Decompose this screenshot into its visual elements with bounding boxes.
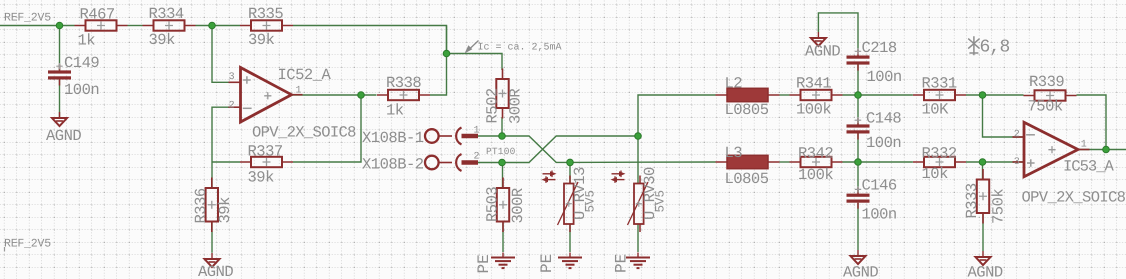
ground symbol PE at RV30	[626, 253, 650, 269]
svg-text:2: 2	[474, 152, 480, 163]
svg-text:L0805: L0805	[725, 101, 769, 119]
op-amp IC53_A	[1013, 122, 1090, 176]
varistor RV30	[628, 176, 649, 233]
junction top rail at C149	[56, 22, 63, 29]
svg-text:R332: R332	[922, 145, 957, 163]
wire RV30 junction down	[637, 136, 639, 184]
svg-text:2: 2	[229, 100, 235, 111]
svg-text:100k: 100k	[798, 166, 833, 184]
svg-text:100n: 100n	[867, 68, 902, 86]
capacitor C149	[48, 63, 71, 86]
wire RV30 to PE	[637, 224, 639, 252]
svg-text:R467: R467	[80, 6, 115, 24]
wire C149 to AGND	[59, 80, 61, 119]
resistor R467	[75, 20, 128, 30]
surge arrow annotation left of RV13	[542, 171, 557, 183]
wire R341 to C junction	[843, 94, 913, 96]
wire R502 to row1	[501, 117, 503, 136]
resistor R341	[790, 90, 843, 100]
svg-text:10k: 10k	[922, 165, 949, 183]
junction top rail at IC52 pin3	[209, 22, 216, 29]
svg-text:AGND: AGND	[46, 127, 81, 145]
inductor L3	[716, 155, 780, 168]
svg-text:IC52_A: IC52_A	[278, 66, 332, 84]
ground symbol AGND at C149	[52, 112, 67, 126]
wire junction down to R333	[982, 162, 984, 180]
op-amp IC52_A	[229, 68, 303, 123]
svg-text:100n: 100n	[866, 134, 901, 152]
svg-text:C149: C149	[64, 54, 99, 72]
capacitor C148	[847, 117, 870, 140]
svg-text:R503: R503	[484, 187, 502, 222]
svg-text:C148: C148	[866, 110, 901, 128]
svg-text:10K: 10K	[922, 101, 950, 119]
junction RV30 node	[635, 133, 642, 140]
wire C218 top to AGND	[818, 13, 858, 51]
wire R332 to junction and IC53 pin3	[966, 161, 1024, 163]
inductor L2	[716, 88, 780, 101]
svg-text:1: 1	[1081, 139, 1087, 150]
wire X108B-1 lead to row1 junction	[478, 135, 502, 137]
wire R337 right to feedback corner	[293, 95, 361, 162]
wire net REF_2V5 top rail segment 2	[128, 25, 143, 27]
svg-text:R342: R342	[798, 145, 833, 163]
net label origin tick REF_2V5 bottom	[4, 247, 6, 252]
wire junction to C148	[857, 95, 859, 124]
wire C218 to junction	[857, 64, 859, 95]
svg-text:R337: R337	[248, 143, 283, 161]
junction IC53 pin2 node	[979, 92, 986, 99]
svg-text:AGND: AGND	[198, 263, 233, 279]
resistor R332	[913, 157, 966, 167]
junction RV13 node	[567, 159, 574, 166]
svg-text:R335: R335	[248, 5, 283, 23]
svg-text:R338: R338	[386, 74, 421, 92]
resistor R502	[496, 69, 508, 119]
junction R333 node	[979, 159, 986, 166]
svg-text:300R: 300R	[507, 89, 525, 124]
svg-text:PT100: PT100	[486, 146, 516, 157]
wire C148 to row2 junction	[857, 133, 859, 162]
wire net REF_2V5 top rail segment 3	[196, 25, 241, 27]
resistor R339	[1024, 90, 1077, 100]
wire IC52 pin2 to node	[212, 107, 241, 162]
svg-text:750k: 750k	[1028, 98, 1063, 116]
ground symbol AGND at C146	[851, 250, 866, 264]
svg-text:X108B-1: X108B-1	[362, 129, 424, 147]
svg-text:750k: 750k	[990, 189, 1008, 224]
junction IC52 output feedback	[358, 92, 365, 99]
svg-text:3: 3	[229, 72, 235, 83]
resistor R335	[240, 20, 293, 30]
resistor R336	[206, 178, 218, 233]
svg-text:L3: L3	[725, 144, 743, 162]
ground symbol PE at R503	[491, 253, 515, 269]
wire net REF_2V5 top rail segment 1	[0, 25, 75, 27]
ground symbol AGND at R336	[205, 253, 220, 267]
wire IC52 output	[292, 94, 377, 96]
wire R339 to feedback corner	[1077, 95, 1107, 150]
junction Ic current probe node	[443, 50, 450, 57]
svg-text:OPV_2X_SOIC8: OPV_2X_SOIC8	[252, 124, 356, 142]
wire R342 to C146 junction	[843, 161, 913, 163]
wire right junction down to IC53 pin2	[983, 95, 1025, 137]
wire RV13 junction down	[569, 162, 571, 183]
wire row2 junction to crossover	[502, 136, 638, 163]
wire row2 junction to C146	[857, 162, 859, 194]
svg-text:1k: 1k	[78, 32, 96, 50]
wire L3 to R342	[780, 161, 790, 163]
svg-text:AGND: AGND	[968, 264, 1003, 279]
resistor R342	[790, 157, 843, 167]
svg-text:OPV_2X_SOIC8: OPV_2X_SOIC8	[1022, 189, 1126, 207]
wire R338 right to Ic node	[430, 26, 447, 96]
junction row1 at R502	[499, 133, 506, 140]
ground symbol AGND at C218 top	[811, 32, 826, 46]
varistor RV13	[558, 176, 579, 233]
junction C146 node	[855, 159, 862, 166]
connector X108B-2	[425, 154, 478, 171]
wire L2 to R341	[780, 94, 790, 96]
ground symbol AGND at R333	[976, 251, 991, 265]
svg-text:AGND: AGND	[843, 264, 878, 279]
svg-text:R331: R331	[922, 75, 957, 93]
svg-text:X108B-2: X108B-2	[362, 156, 424, 174]
junction C218-C148 node	[855, 92, 862, 99]
svg-text:39k: 39k	[149, 31, 176, 49]
wire row1 junction to crossover	[502, 136, 570, 162]
svg-text:R333: R333	[963, 183, 981, 218]
wire R333 to AGND	[982, 213, 984, 251]
svg-text:PE: PE	[613, 254, 631, 273]
wire crossover to L2 row	[638, 95, 716, 136]
resistor R334	[143, 20, 196, 30]
svg-text:39k: 39k	[248, 169, 275, 187]
svg-text:PE: PE	[475, 254, 493, 273]
svg-text:100n: 100n	[862, 206, 897, 224]
wire X108B-2 lead to row2 junction	[478, 162, 502, 164]
wire C146 to AGND	[857, 203, 859, 250]
ground symbol PE at RV13	[558, 253, 582, 269]
svg-text:L0805: L0805	[725, 170, 769, 188]
wire Ic node to R502	[447, 54, 503, 71]
svg-text:39k: 39k	[248, 31, 275, 49]
wire R503 junction down	[502, 163, 504, 189]
svg-text:5V5: 5V5	[653, 190, 667, 213]
wire R336 to AGND	[211, 222, 213, 253]
wire R331 to right junction	[966, 94, 1024, 96]
svg-text:1: 1	[296, 86, 302, 97]
svg-text:300R: 300R	[509, 188, 527, 223]
wire net REF_2V5 top rail segment 4	[293, 26, 447, 54]
wire RV13 junction to L3	[570, 161, 716, 163]
svg-text:2: 2	[1014, 130, 1020, 141]
svg-text:AGND: AGND	[805, 43, 840, 61]
svg-text:R334: R334	[149, 5, 184, 23]
junction IC53 output feedback	[1103, 146, 1110, 153]
svg-text:6,8: 6,8	[980, 38, 1010, 58]
wire rail to IC52 pin3	[212, 26, 241, 83]
wire RV13 to PE	[569, 224, 571, 252]
wire R503 to PE	[502, 222, 504, 253]
svg-text:5V5: 5V5	[583, 190, 597, 213]
resistor R503	[497, 178, 509, 233]
svg-text:R341: R341	[796, 75, 831, 93]
svg-text:39k: 39k	[216, 197, 234, 224]
svg-text:PE: PE	[538, 254, 556, 273]
resistor R337	[240, 157, 293, 167]
wire IC53 output	[1078, 149, 1126, 151]
svg-text:IC53_A: IC53_A	[1063, 158, 1115, 176]
svg-text:1: 1	[474, 126, 480, 137]
svg-text:100k: 100k	[796, 101, 831, 119]
svg-text:REF_2V5: REF_2V5	[4, 12, 51, 25]
resistor R331	[913, 90, 966, 100]
svg-text:3: 3	[1014, 157, 1020, 168]
svg-text:L2: L2	[725, 75, 743, 93]
svg-text:100n: 100n	[64, 81, 99, 99]
capacitor C146	[847, 186, 870, 209]
svg-text:1k: 1k	[386, 102, 404, 120]
svg-text:R336: R336	[192, 188, 210, 223]
annotation star 6,8	[968, 36, 979, 55]
connector X108B-1	[425, 128, 478, 145]
svg-text:R339: R339	[1029, 73, 1064, 91]
wire R336 node down	[211, 162, 213, 188]
svg-text:REF_2V5: REF_2V5	[4, 238, 51, 251]
svg-text:Ic = ca. 2,5mA: Ic = ca. 2,5mA	[478, 43, 562, 54]
capacitor C218	[847, 48, 870, 71]
svg-text:C146: C146	[862, 177, 897, 195]
svg-text:C218: C218	[862, 39, 897, 57]
wire C149 to rail	[59, 26, 61, 71]
svg-text:R502: R502	[483, 88, 501, 123]
current probe arrow Ic	[469, 41, 479, 50]
resistor R338	[377, 90, 430, 100]
resistor R333	[977, 169, 989, 224]
junction row2 at R503	[499, 159, 506, 166]
wire node to R337 left	[212, 161, 240, 163]
surge arrow annotation left of RV30	[611, 171, 626, 183]
